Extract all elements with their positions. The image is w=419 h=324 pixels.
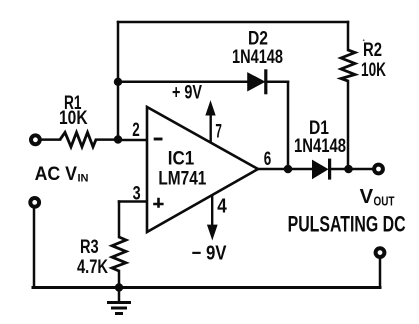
wire pin 3 vertical to R3 xyxy=(118,202,121,238)
wire D1 cathode to Vout terminal xyxy=(332,168,373,171)
svg-text:3: 3 xyxy=(133,184,141,205)
svg-text:IN: IN xyxy=(78,173,89,185)
wire R2 top lead xyxy=(347,22,350,50)
ground xyxy=(107,288,131,314)
resistor R3 xyxy=(112,237,126,271)
resistor R1 xyxy=(60,132,96,146)
wire vertical from D2 to output node xyxy=(287,82,290,169)
wire pin 2 xyxy=(118,139,146,142)
wire left feedback vertical xyxy=(117,22,120,140)
svg-text:R3: R3 xyxy=(80,237,99,258)
svg-text:4.7K: 4.7K xyxy=(77,257,108,278)
wire top feedback rail xyxy=(118,21,348,24)
svg-text:R2: R2 xyxy=(363,40,382,61)
svg-text:1N4148: 1N4148 xyxy=(232,47,283,68)
node junction output D2 branch (288,167.5) xyxy=(284,165,293,174)
svg-text:AC V: AC V xyxy=(35,164,78,185)
terminal AC Vin high xyxy=(31,135,40,144)
wire R1 to pin 2 node xyxy=(96,138,118,141)
diode D2 xyxy=(248,69,266,94)
svg-text:PULSATING DC: PULSATING DC xyxy=(288,212,406,237)
svg-text:− 9V: − 9V xyxy=(192,242,228,264)
resistor R2 xyxy=(341,50,355,81)
op-amp minus input sign xyxy=(154,138,163,141)
op-amp U1 triangle xyxy=(147,107,258,232)
terminal AC Vin low xyxy=(30,198,39,207)
node junction output R2 branch (348,167.5) xyxy=(344,165,353,174)
svg-text:1N4148: 1N4148 xyxy=(294,136,346,157)
wire D2 cathode segment xyxy=(266,81,289,84)
wire Vout low vertical xyxy=(379,258,382,288)
svg-text:LM741: LM741 xyxy=(158,168,206,189)
wire bottom ground rail xyxy=(33,286,380,289)
terminal Vout low xyxy=(376,248,385,257)
svg-text:4: 4 xyxy=(217,196,227,218)
diode D1 xyxy=(313,159,330,180)
svg-text:IC1: IC1 xyxy=(168,148,195,169)
svg-text:V: V xyxy=(360,185,374,208)
wire pin 3 horizontal xyxy=(119,200,146,203)
svg-text:10K: 10K xyxy=(361,60,386,81)
wire output rail pin 6 xyxy=(258,168,313,171)
svg-text:7: 7 xyxy=(215,122,222,143)
speck artifact near R2 label xyxy=(363,39,365,41)
pin 4 supply arrow down xyxy=(208,195,217,238)
node junction feedback top (118,81) xyxy=(114,78,122,86)
wire AC input low vertical xyxy=(33,207,36,288)
wire input to R1 xyxy=(42,138,60,141)
node junction ground R3 (119,288) xyxy=(115,283,123,291)
node junction pin 2 (118,140) xyxy=(114,135,122,143)
svg-text:10K: 10K xyxy=(59,108,88,129)
wire R2 bottom lead xyxy=(347,81,350,169)
terminal Vout high xyxy=(374,165,383,174)
op-amp plus input sign xyxy=(153,198,163,208)
svg-text:6: 6 xyxy=(264,149,272,170)
pin 7 supply arrow up xyxy=(206,102,214,142)
svg-text:+ 9V: + 9V xyxy=(172,83,202,104)
wire R3 bottom lead xyxy=(118,271,121,288)
svg-text:2: 2 xyxy=(132,120,140,141)
svg-text:OUT: OUT xyxy=(374,194,395,209)
wire D2 anode segment xyxy=(118,81,249,84)
